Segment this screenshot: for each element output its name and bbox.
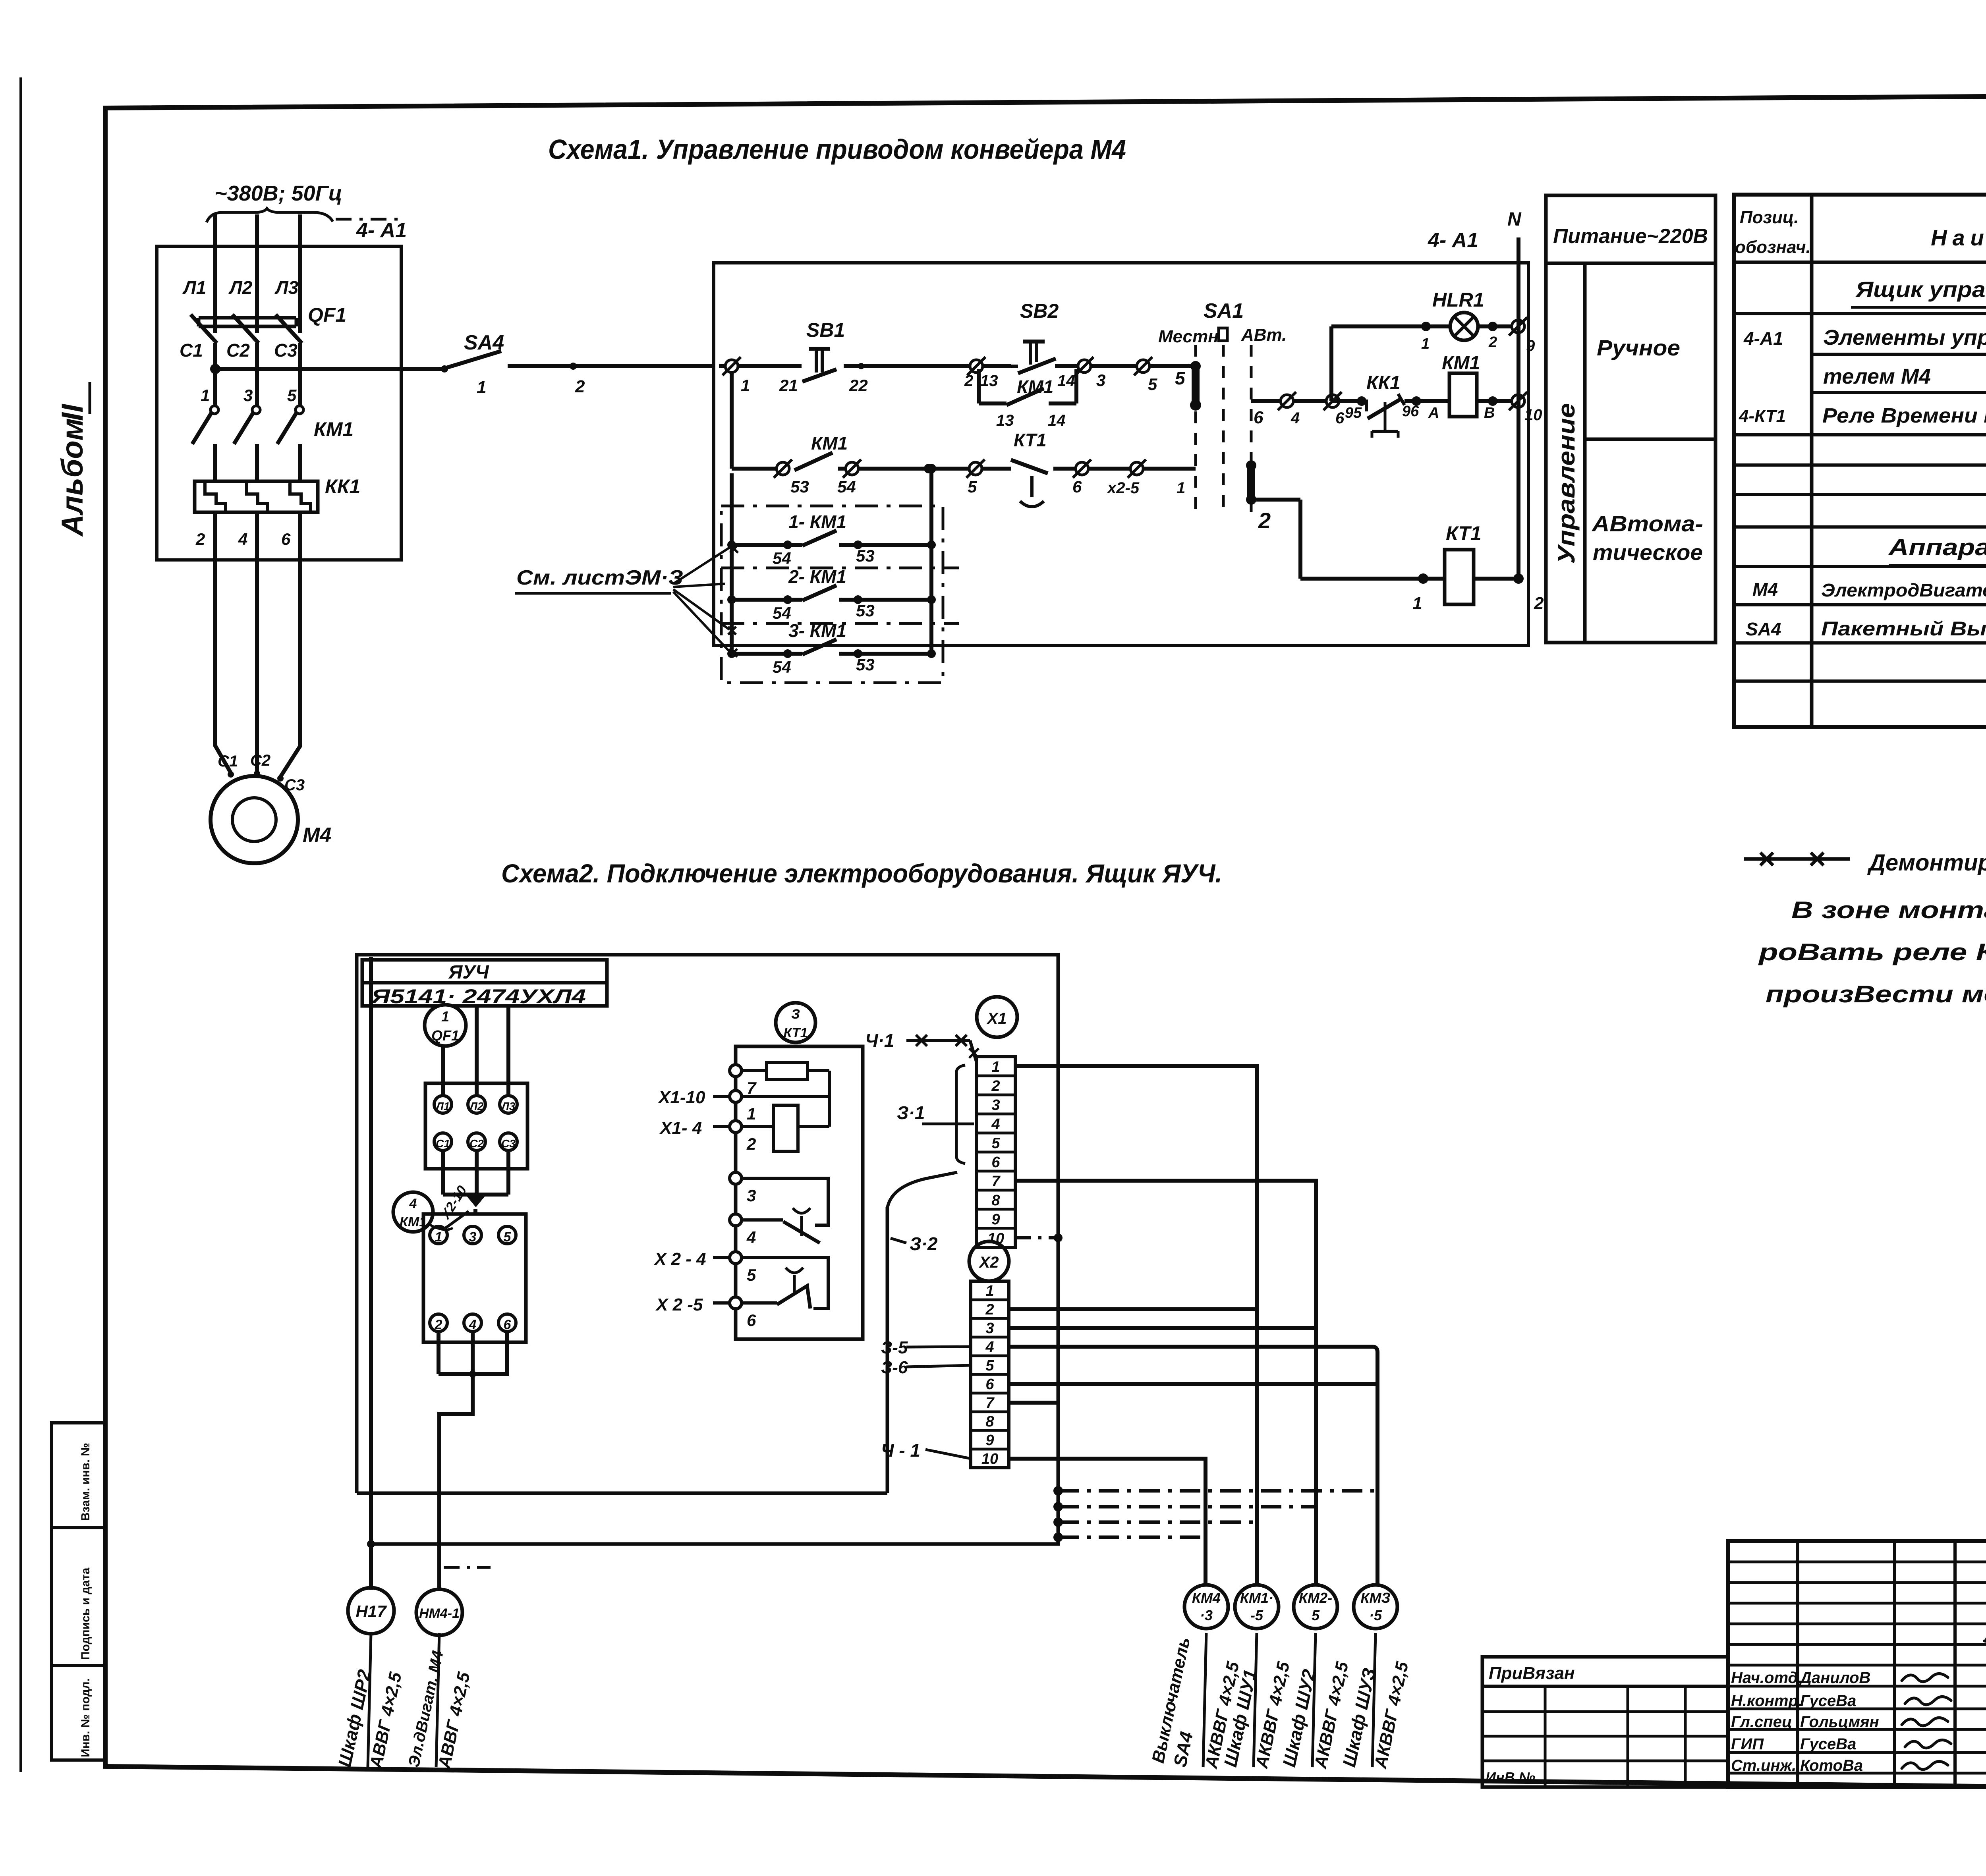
svg-text:1- КМ1: 1- КМ1 — [788, 511, 846, 532]
svg-text:В: В — [1484, 405, 1495, 421]
KM1 aux contact branch (13-14) — [977, 369, 981, 403]
supply wire from H17 — [369, 957, 373, 1590]
svg-text:SВ1: SВ1 — [806, 319, 845, 341]
svg-text:З: З — [791, 1007, 800, 1022]
terminal 2 — [430, 1314, 447, 1332]
svg-text:54: 54 — [773, 658, 791, 676]
wires C1-C3 merge to cable — [441, 1150, 445, 1195]
svg-text:1: 1 — [985, 1283, 994, 1299]
wire KK1 to coil — [1404, 399, 1449, 403]
left bus of contact group — [730, 473, 734, 654]
pushbutton SB1 (NC) — [802, 369, 837, 382]
svg-text:Л1: Л1 — [435, 1100, 450, 1112]
svg-text:Л1: Л1 — [182, 277, 206, 298]
wire drop L3 — [506, 1006, 510, 1096]
wire X2-7 — [1009, 1401, 1058, 1405]
wire X2-3 — [1009, 1326, 1316, 1330]
terminal 5 — [1134, 357, 1152, 375]
svg-text:6: 6 — [991, 1154, 1000, 1171]
svg-text:6: 6 — [281, 530, 291, 548]
junction dots on enclosure edge — [1053, 1486, 1063, 1496]
svg-text:1: 1 — [991, 1059, 1000, 1075]
svg-text:2: 2 — [435, 1317, 442, 1332]
dash-dot box with repeated KM1 contacts — [721, 506, 943, 683]
cable 3-2 wire — [887, 1172, 957, 1208]
dash-dot cable to KM4-3 — [1058, 1536, 1206, 1539]
cable circle KM2-5 — [1294, 1585, 1337, 1629]
svg-text:13: 13 — [980, 372, 998, 390]
left margin stamp boxes (Взам.инв.№ / Подпись и дата / Инв.№ подл.) — [52, 1423, 105, 1760]
svg-text:QF1: QF1 — [431, 1027, 459, 1044]
svg-text:·5: ·5 — [1369, 1607, 1382, 1623]
svg-text:КК1: КК1 — [1366, 372, 1401, 394]
svg-text:М4: М4 — [1752, 579, 1778, 600]
svg-text:QF1: QF1 — [308, 304, 346, 326]
svg-text:3: 3 — [243, 386, 253, 405]
wire X1-10 dash-dot — [1015, 1236, 1058, 1239]
svg-text:II: II — [56, 403, 89, 421]
neutral wire down to KT1 — [1517, 237, 1520, 579]
svg-text:Ящик управления Я5141-2474УХЛ4: Ящик управления Я5141-2474УХЛ4 — [1855, 277, 1986, 302]
svg-text:3: 3 — [469, 1229, 477, 1245]
svg-text:54: 54 — [773, 549, 791, 567]
svg-text:22: 22 — [849, 376, 868, 395]
QF1 terminal block — [425, 1083, 527, 1169]
KT1 internal timed contact 3-4 — [742, 1178, 828, 1225]
svg-text:5: 5 — [968, 477, 977, 496]
svg-text:4: 4 — [1291, 409, 1300, 427]
terminal 54 — [843, 459, 861, 478]
svg-text:С2: С2 — [469, 1137, 484, 1150]
KT1 terminal 4 — [730, 1214, 742, 1226]
wire Avt rung — [1251, 399, 1327, 403]
svg-text:КТ1: КТ1 — [784, 1025, 808, 1040]
wire X1-7 to KM2-5 cable — [1015, 1181, 1316, 1585]
svg-text:Нач.отд.: Нач.отд. — [1731, 1669, 1802, 1687]
wire inside KM1 block — [446, 1211, 469, 1228]
SA1 contact segment (Авт) — [1246, 460, 1256, 471]
svg-text:~380В; 50Гц: ~380В; 50Гц — [214, 181, 342, 205]
svg-text:НLR1: НLR1 — [1432, 289, 1484, 311]
terminal С2 — [468, 1133, 485, 1150]
title block stamp — [1728, 1541, 1986, 1787]
svg-text:4-А1: 4-А1 — [1743, 328, 1783, 349]
cable circle HM4-1 — [416, 1589, 462, 1635]
svg-text:5: 5 — [1148, 375, 1157, 394]
wire QF1 to KM1 phase2 — [255, 343, 259, 406]
svg-text:4- А1: 4- А1 — [1428, 229, 1478, 252]
right bus of contact group — [929, 469, 933, 654]
KT1 terminal 5 — [730, 1252, 742, 1264]
box bottom edge — [357, 1492, 887, 1495]
legend symbol demolish — [1744, 857, 1850, 861]
cable label Шкаф ШУ1 — [1254, 1633, 1257, 1767]
sheet outer trim line left — [19, 77, 22, 1772]
terminal 5 rung2 — [966, 459, 985, 478]
svg-text:1: 1 — [747, 1104, 756, 1123]
terminal Л2 — [468, 1096, 485, 1113]
svg-text:АВтома-: АВтома- — [1591, 511, 1703, 536]
KT1 internal wire t1 — [742, 1095, 829, 1098]
svg-text:Х 2 - 4: Х 2 - 4 — [653, 1249, 706, 1269]
svg-text:-5: -5 — [1250, 1607, 1263, 1623]
svg-text:ЯУЧ: ЯУЧ — [448, 962, 489, 983]
terminal 1 — [430, 1226, 447, 1244]
SA1 contact segment (Местн) — [1190, 361, 1201, 371]
svg-text:ИнВ.№: ИнВ.№ — [1486, 1769, 1535, 1785]
svg-text:7: 7 — [985, 1395, 995, 1411]
svg-text:Питание~220В: Питание~220В — [1553, 225, 1708, 248]
terminal strip X1 — [977, 1057, 1015, 1247]
rung 1 main wire — [719, 364, 802, 368]
svg-text:ГИП: ГИП — [1731, 1735, 1764, 1753]
svg-text:53: 53 — [856, 655, 875, 674]
aux contact 3- КМ1 54-53 — [727, 649, 736, 658]
svg-text:Схема2. Подключение электрообо: Схема2. Подключение электрооборудования.… — [501, 859, 1222, 888]
terminal 6 rung2 — [1073, 459, 1091, 478]
svg-text:5: 5 — [985, 1357, 994, 1374]
svg-text:ЭлектродВигатель 4А80А6УЗ; ~38: ЭлектродВигатель 4А80А6УЗ; ~380В; 0.75кВ… — [1821, 580, 1986, 600]
Привязан box — [1482, 1657, 1728, 1787]
terminal 5 — [498, 1226, 516, 1244]
svg-text:З-6: З-6 — [881, 1358, 908, 1377]
svg-text:5: 5 — [287, 386, 297, 405]
svg-text:1: 1 — [741, 376, 750, 395]
svg-text:КТ1: КТ1 — [1014, 430, 1047, 450]
svg-text:ДанилоВ: ДанилоВ — [1799, 1669, 1870, 1687]
svg-text:Инв. № подл.: Инв. № подл. — [79, 1678, 92, 1757]
svg-text:5: 5 — [1312, 1607, 1320, 1623]
svg-text:54: 54 — [773, 604, 791, 622]
aux contact 1- КМ1 54-53 — [727, 540, 736, 549]
wires 2-4-6 to motor cable — [437, 1332, 440, 1374]
svg-text:С1: С1 — [218, 753, 238, 770]
svg-text:С1: С1 — [180, 340, 203, 361]
KT1 internal resistor — [742, 1069, 767, 1072]
svg-text:13: 13 — [996, 412, 1014, 429]
svg-text:Наименование: Наименование — [1931, 225, 1986, 250]
svg-text:1: 1 — [1412, 594, 1422, 613]
motor terminal C1 — [228, 771, 234, 778]
svg-text:С2: С2 — [226, 340, 250, 361]
KT1 timed contact — [981, 467, 1011, 471]
cable circle KM3-5 — [1354, 1585, 1397, 1629]
svg-text:4-КТ1: 4-КТ1 — [1739, 406, 1786, 426]
terminal 10 — [1509, 392, 1527, 410]
box 4-A1 control section — [714, 263, 1528, 645]
box ЯУ4 enclosure — [357, 955, 1058, 1544]
svg-text:6: 6 — [1254, 408, 1263, 427]
KT1 terminal 7 — [730, 1065, 742, 1077]
terminal strip circle X2 — [969, 1241, 1009, 1281]
handwritten mark above stamp — [1984, 1636, 1986, 1642]
wire drop L2 — [475, 1006, 479, 1096]
svg-text:Элементы управления электродВ: Элементы управления электродВига- — [1823, 326, 1986, 349]
svg-text:М4: М4 — [303, 824, 331, 847]
terminal С1 — [434, 1133, 452, 1150]
svg-text:З·1: З·1 — [897, 1102, 925, 1123]
svg-text:4: 4 — [409, 1196, 417, 1211]
svg-text:КМ1: КМ1 — [811, 433, 848, 454]
wire SA4 to node 2 — [508, 364, 714, 368]
svg-text:N: N — [1507, 209, 1522, 230]
svg-text:2: 2 — [964, 372, 973, 390]
terminal x2-5 — [1128, 459, 1146, 478]
svg-text:SВ2: SВ2 — [1020, 300, 1059, 322]
wire phase L3 incoming — [298, 214, 302, 333]
svg-text:Аппаратура по месту: Аппаратура по месту — [1888, 535, 1986, 560]
svg-text:2- КМ1: 2- КМ1 — [788, 566, 846, 587]
cable 3-1 bundle mark — [956, 1065, 965, 1072]
cable label Эл.двигат М4 — [436, 1633, 439, 1767]
svg-text:95: 95 — [1345, 405, 1362, 421]
svg-text:2: 2 — [1258, 508, 1271, 533]
svg-text:Х 2 -5: Х 2 -5 — [655, 1295, 703, 1314]
svg-text:Местн.: Местн. — [1158, 327, 1223, 346]
thermal relay KK1 heaters — [195, 481, 318, 512]
svg-text:2: 2 — [195, 530, 205, 548]
svg-text:9: 9 — [991, 1211, 1000, 1228]
wire X2-6 — [1009, 1382, 1377, 1386]
svg-text:3: 3 — [985, 1320, 994, 1337]
svg-text:ГусеВа: ГусеВа — [1800, 1692, 1856, 1710]
terminal strip circle X1 — [977, 997, 1017, 1037]
enclosure label box — [362, 960, 607, 1006]
svg-text:Подпись и дата: Подпись и дата — [79, 1567, 92, 1660]
svg-text:ПриВязан: ПриВязан — [1489, 1664, 1575, 1683]
svg-text:З·2: З·2 — [910, 1233, 938, 1254]
svg-text:4: 4 — [469, 1317, 477, 1332]
svg-text:14: 14 — [1048, 412, 1066, 429]
svg-text:2: 2 — [1534, 594, 1544, 613]
svg-text:А: А — [1428, 405, 1439, 421]
svg-text:4: 4 — [985, 1339, 994, 1355]
terminal 6 — [1323, 392, 1342, 410]
svg-text:Схема1. Управление приводом: Схема1. Управление приводом конвейера М4 — [548, 134, 1126, 165]
svg-text:КМЗ: КМЗ — [1360, 1590, 1390, 1606]
svg-text:ГусеВа: ГусеВа — [1800, 1735, 1856, 1753]
svg-text:Демонтировать: Демонтировать — [1867, 850, 1986, 876]
svg-text:Л3: Л3 — [501, 1100, 516, 1112]
svg-text:Х1- 4: Х1- 4 — [659, 1118, 702, 1138]
svg-text:КМ4: КМ4 — [1192, 1590, 1221, 1606]
terminal Л1 — [434, 1096, 452, 1113]
terminal С3 — [500, 1133, 517, 1150]
position circle 4 KM1 — [393, 1192, 433, 1232]
aux contact 2- КМ1 54-53 — [727, 595, 736, 604]
svg-text:КМ1: КМ1 — [314, 418, 354, 440]
dash-dot cable to KM1-5 — [1058, 1521, 1257, 1524]
svg-text:Управление: Управление — [1553, 403, 1580, 564]
terminal 2/13 — [967, 357, 985, 375]
svg-text:3: 3 — [747, 1186, 756, 1205]
wire X2-2 — [1009, 1307, 1257, 1311]
circuit breaker QF1 — [191, 315, 217, 343]
leader from KM1 circle — [428, 1224, 453, 1230]
svg-text:НМ4-1: НМ4-1 — [419, 1606, 460, 1621]
brace under 380V label — [207, 208, 333, 222]
KT1 terminal 1 — [730, 1090, 742, 1102]
selector switch SA1 dashed lines — [1194, 345, 1197, 359]
KT1 terminal 6 — [730, 1297, 742, 1309]
svg-text:6: 6 — [504, 1317, 512, 1332]
svg-text:В зоне монтажа В ящике ЯУЧ дем: В зоне монтажа В ящике ЯУЧ демонти- — [1791, 897, 1986, 923]
svg-text:6: 6 — [1335, 409, 1345, 427]
svg-text:Гольцмян: Гольцмян — [1800, 1713, 1879, 1731]
svg-text:С3: С3 — [274, 340, 298, 361]
wire drop L1 — [441, 1006, 445, 1096]
svg-text:Х1: Х1 — [987, 1010, 1007, 1027]
svg-text:4: 4 — [746, 1228, 756, 1247]
svg-text:5: 5 — [991, 1135, 1000, 1152]
svg-text:9: 9 — [1526, 337, 1535, 355]
cable circle KM4-3 — [1184, 1585, 1228, 1629]
svg-text:Альбом: Альбом — [56, 418, 89, 537]
cable label Шкаф ШУ2 — [1312, 1633, 1316, 1767]
legend box Питание ~220В — [1546, 195, 1716, 643]
svg-text:8: 8 — [991, 1192, 1000, 1209]
dash-dot cable to KM2-5 — [1058, 1505, 1316, 1509]
wire SB1 to SB2 — [844, 364, 1011, 368]
svg-text:произВести монтаж согласно: произВести монтаж согласно схеме 2 — [1766, 981, 1986, 1007]
svg-text:Ч·1: Ч·1 — [865, 1030, 894, 1051]
svg-text:обознач.: обознач. — [1735, 237, 1811, 257]
svg-text:Позиц.: Позиц. — [1740, 208, 1799, 227]
wire KK1 to motor phase2 — [255, 512, 259, 773]
KT1 terminal 3 — [730, 1172, 742, 1184]
box 4-A1 power section — [157, 246, 401, 560]
svg-text:КТ1: КТ1 — [1446, 522, 1482, 544]
svg-text:КМ1·: КМ1· — [1240, 1590, 1273, 1606]
svg-text:С3: С3 — [501, 1137, 516, 1150]
KK1 test button symbol — [1384, 402, 1387, 431]
control tap wire to SA4 — [215, 367, 444, 371]
svg-text:Х1-10: Х1-10 — [657, 1088, 705, 1107]
svg-text:7: 7 — [747, 1079, 757, 1097]
svg-text:2: 2 — [575, 377, 585, 396]
dash-dot separator lines — [721, 567, 959, 569]
svg-text:4- А1: 4- А1 — [356, 219, 407, 242]
svg-text:2: 2 — [1488, 334, 1497, 351]
cable label Шкаф ШР2 — [368, 1633, 371, 1767]
wire phase L2 incoming — [255, 214, 259, 333]
cable circle KM1-5 — [1235, 1585, 1279, 1629]
svg-text:АВт.: АВт. — [1241, 325, 1287, 345]
contactor KM1 main contacts — [211, 406, 218, 414]
svg-text:КотоВа: КотоВа — [1800, 1757, 1863, 1774]
svg-text:53: 53 — [856, 546, 875, 565]
svg-text:С2: С2 — [250, 752, 270, 769]
svg-text:1: 1 — [435, 1229, 442, 1245]
KM1 terminal block — [423, 1214, 526, 1342]
rung 2 wire — [730, 371, 734, 469]
KT1 terminal 2 — [730, 1121, 742, 1133]
motor terminal C3 — [277, 775, 284, 782]
terminal strip X2 — [971, 1281, 1009, 1468]
svg-text:53: 53 — [790, 477, 809, 496]
svg-text:6: 6 — [1072, 477, 1082, 496]
terminal Л3 — [500, 1096, 517, 1113]
svg-text:SА4: SА4 — [464, 331, 504, 354]
wire to KK1 contact — [1333, 399, 1362, 403]
terminal 9 — [1509, 317, 1527, 336]
motor M4 — [211, 776, 298, 863]
svg-text:7: 7 — [991, 1173, 1001, 1190]
KT1 internal timed contact 5-6 — [742, 1258, 828, 1309]
svg-text:2: 2 — [746, 1135, 756, 1153]
svg-text:5: 5 — [747, 1266, 756, 1284]
cable label Выключатель SA4 — [1203, 1633, 1206, 1767]
svg-text:КМ2-: КМ2- — [1299, 1590, 1332, 1606]
svg-text:3- КМ1: 3- КМ1 — [788, 620, 846, 641]
svg-text:·3: ·3 — [1200, 1607, 1213, 1623]
svg-text:SА4: SА4 — [1746, 619, 1781, 639]
dash-dot cable to KM3-5 — [1058, 1489, 1377, 1493]
svg-text:Л2: Л2 — [469, 1100, 484, 1112]
wire QF1 to KM1 phase3 — [298, 343, 302, 406]
svg-text:КК1: КК1 — [325, 475, 360, 498]
svg-text:1: 1 — [1421, 336, 1430, 352]
terminal 3 — [464, 1226, 481, 1244]
svg-text:2: 2 — [985, 1301, 994, 1318]
wire phase L1 incoming — [213, 214, 217, 333]
svg-text:Л3: Л3 — [274, 277, 299, 298]
svg-text:SА1: SА1 — [1204, 299, 1244, 322]
terminal 53 — [774, 459, 792, 478]
svg-text:54: 54 — [837, 477, 856, 496]
svg-text:См. листЭМ·З: См. листЭМ·З — [516, 566, 683, 589]
svg-text:6: 6 — [985, 1376, 994, 1393]
svg-text:1: 1 — [1177, 479, 1185, 497]
svg-text:Ст.инж.: Ст.инж. — [1731, 1757, 1796, 1774]
svg-text:Пакетный Выключатель ПВ2-10/: Пакетный Выключатель ПВ2-10/М356 — [1821, 618, 1986, 640]
wire SB2 to SA1 — [1055, 364, 1196, 368]
svg-text:Взам. инв. №: Взам. инв. № — [79, 1443, 92, 1521]
svg-text:телем М4: телем М4 — [1823, 365, 1931, 388]
svg-text:3: 3 — [991, 1097, 1000, 1114]
KT1 internal coil — [742, 1125, 773, 1128]
svg-text:С1: С1 — [436, 1137, 450, 1150]
position circle 1 QF1 — [425, 1005, 466, 1046]
svg-text:6: 6 — [747, 1311, 756, 1330]
svg-text:1: 1 — [201, 386, 210, 405]
svg-text:Х2: Х2 — [979, 1254, 999, 1271]
svg-text:Н.контр.: Н.контр. — [1731, 1692, 1802, 1710]
svg-text:2: 2 — [991, 1078, 1000, 1094]
svg-text:9: 9 — [985, 1432, 994, 1449]
terminal 4 — [1278, 392, 1296, 410]
svg-text:КМ1: КМ1 — [1442, 353, 1480, 374]
wire KK1 to motor phase3 — [280, 512, 300, 777]
terminal 1 — [723, 357, 741, 375]
wire X1-1 to KM1-5 cable — [1015, 1066, 1257, 1585]
svg-text:Гл.спец: Гл.спец — [1731, 1713, 1792, 1731]
relay KT1 detail box — [736, 1046, 863, 1339]
svg-text:х2-5: х2-5 — [1107, 479, 1140, 497]
terminal 4 — [464, 1314, 481, 1332]
svg-text:8: 8 — [985, 1413, 994, 1430]
svg-text:1: 1 — [477, 378, 486, 397]
svg-text:Я5141· 2474УХЛ4: Я5141· 2474УХЛ4 — [370, 985, 586, 1007]
motor terminal C2 — [254, 770, 260, 777]
wire QF1 to KM1 phase1 — [213, 343, 217, 406]
svg-text:КМ1: КМ1 — [1017, 376, 1053, 397]
svg-text:5: 5 — [504, 1229, 512, 1245]
terminal 6 — [498, 1314, 516, 1332]
svg-text:10: 10 — [1524, 406, 1542, 424]
wire X2-10 to KM4-3 cable — [1009, 1459, 1206, 1585]
svg-text:4: 4 — [991, 1116, 1000, 1133]
